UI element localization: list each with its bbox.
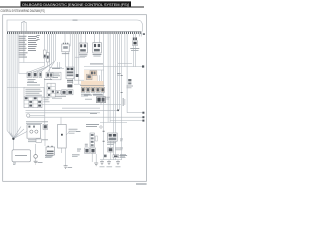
comb nub tick — [143, 33, 145, 35]
wire bundle left — [6, 34, 8, 131]
ignition switch box — [27, 125, 41, 142]
end tick of y66 line — [142, 65, 144, 67]
dark ECU block — [84, 95, 110, 103]
ground center-bottom — [94, 163, 98, 166]
tall tank box — [58, 124, 78, 148]
joint box with text — [24, 82, 44, 97]
tick marks on right long wire — [121, 74, 123, 77]
title bar — [21, 1, 132, 7]
harness outline top — [7, 20, 143, 32]
battery bottom — [46, 146, 55, 157]
text top right of tank — [72, 153, 80, 156]
small box right of ignition — [43, 124, 48, 129]
wire right group — [97, 75, 99, 81]
text marks near x90 y113 — [90, 112, 97, 115]
small text near top center — [73, 20, 78, 21]
resistor column — [90, 133, 97, 147]
connector cluster column center — [66, 67, 74, 87]
title underline — [0, 6, 144, 8]
short drops far right — [139, 34, 141, 37]
short horizontals center — [74, 79, 84, 81]
small comp under block — [108, 147, 121, 152]
ignition coil — [62, 43, 69, 54]
small square on wire x76.8 — [76, 74, 79, 77]
inline component on wire x47.7 — [46, 53, 49, 63]
bottom-right connector block — [107, 133, 117, 145]
engine rounded box — [12, 150, 31, 165]
left-bottom small texts right col — [120, 138, 123, 141]
labelled box (50,72)-(61,80) — [50, 72, 61, 80]
small box above engine — [36, 139, 48, 142]
small box A on y70 line — [90, 71, 97, 76]
N marks center right — [117, 72, 121, 75]
connector row boxes left — [27, 72, 53, 82]
pin table left mid — [24, 97, 50, 108]
relay pin stubs — [80, 34, 82, 43]
grid box — [47, 83, 55, 97]
connector circle right of engine — [34, 155, 38, 159]
text under y67 line left — [52, 67, 60, 70]
circle node left — [27, 114, 30, 117]
marks above y159 line — [104, 155, 107, 158]
pin label smudges left block — [19, 35, 40, 58]
relay K2 — [93, 43, 102, 57]
grounds on y159 line — [100, 162, 120, 165]
small comp near x128-131 y79-84 — [128, 79, 131, 81]
text right of circle — [45, 154, 53, 157]
tower box on harness — [22, 21, 27, 31]
svg-text:CONTROL SYSTEM WIRING DIAGRAM: CONTROL SYSTEM WIRING DIAGRAM [FS] — [1, 9, 45, 13]
component stub wires right — [133, 34, 135, 37]
horizontal runs — [84, 66, 144, 68]
relay K1 — [79, 43, 88, 57]
diagonal wires into connector row — [29, 66, 45, 72]
wire mid col with inline components — [44, 34, 46, 50]
stacked boxes under cluster — [52, 90, 73, 99]
ground under circle — [34, 161, 38, 164]
text rows above resistor — [86, 123, 99, 126]
bottom center components — [77, 148, 96, 153]
footer page number — [136, 183, 147, 184]
end ticks of right lines — [117, 110, 119, 112]
relay bus row — [80, 86, 105, 97]
text row y121 left — [26, 120, 48, 123]
comb right nub — [141, 33, 144, 35]
dotted text row above y110 — [62, 107, 100, 110]
text above y66 line — [90, 63, 103, 64]
wire left col2 — [19, 34, 27, 74]
peach highlight boxes — [84, 70, 98, 81]
comb connector strip — [7, 31, 141, 33]
funnel diagonals to battery junction — [7, 131, 13, 139]
small component right — [130, 37, 139, 51]
page border — [3, 15, 147, 182]
wire center — [64, 34, 66, 43]
battery junction dot — [12, 138, 14, 140]
middle ground — [64, 166, 68, 169]
small box B peach — [86, 74, 92, 79]
bottom drops / grounds wires — [44, 78, 46, 124]
right vertical tiny text — [122, 98, 125, 106]
inline component on wire x44.7 — [43, 50, 46, 58]
